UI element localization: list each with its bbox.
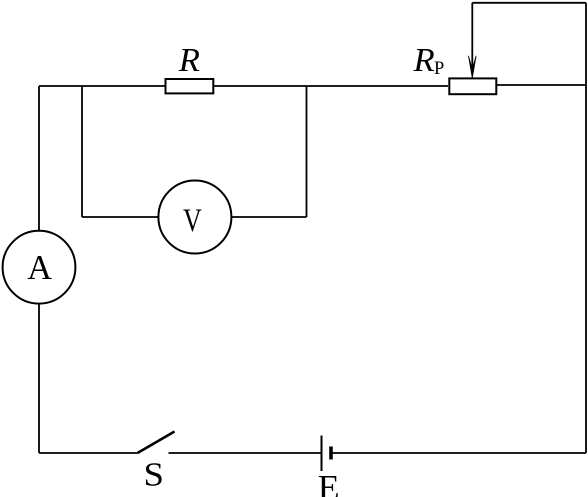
svg-text:R: R [178, 42, 200, 79]
wire: top jumper horizontal [472, 2, 586, 4]
svg-text:A: A [27, 248, 53, 287]
switch S blade [138, 432, 175, 454]
resistor R body [166, 79, 214, 93]
svg-text:E: E [318, 469, 340, 497]
svg-text:R: R [412, 42, 434, 79]
wire: voltmeter branch left vertical [81, 86, 83, 217]
wire: bottom middle segment [169, 452, 322, 454]
ammeter A circle [3, 231, 76, 304]
potentiometer RP body [449, 78, 496, 94]
wire: right vertical [585, 3, 587, 453]
svg-text:V: V [183, 203, 202, 239]
battery E long plate [321, 436, 323, 472]
wire: left vertical [38, 86, 40, 453]
potentiometer wiper arrowhead [469, 56, 477, 78]
wire: potentiometer right terminal to right edge [497, 84, 586, 86]
wire: voltmeter branch horizontal [82, 216, 307, 218]
battery E short plate [329, 447, 333, 460]
wire: voltmeter branch right vertical [306, 86, 308, 217]
wire: bottom left segment [39, 452, 138, 454]
wire: bottom right segment [331, 452, 586, 454]
svg-text:P: P [434, 59, 444, 79]
voltmeter V circle [158, 181, 231, 254]
wire: wiper vertical [471, 3, 473, 70]
wire: top main horizontal [39, 85, 448, 87]
svg-text:S: S [144, 457, 165, 494]
